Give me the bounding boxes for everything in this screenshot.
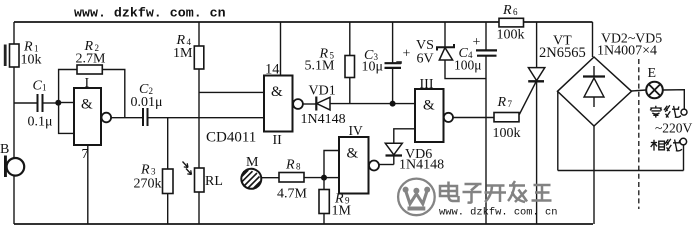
svg-text:100k: 100k (497, 28, 525, 43)
svg-text:100k: 100k (493, 126, 521, 141)
svg-text:7: 7 (508, 99, 513, 109)
svg-text:8: 8 (296, 162, 301, 172)
wire C1 node (14, 102, 38, 104)
svg-text:1M: 1M (173, 46, 193, 61)
svg-text:+: + (403, 47, 411, 62)
svg-text:1N4007×4: 1N4007×4 (597, 44, 657, 59)
svg-text:&: & (271, 84, 283, 100)
svg-text:IV: IV (349, 123, 363, 138)
resistor R1 (10, 40, 42, 68)
capacitor C1 (28, 79, 59, 130)
svg-text:0.01μ: 0.01μ (131, 95, 163, 110)
svg-text:270k: 270k (134, 177, 162, 192)
wire bottom rail (14, 223, 593, 225)
op-amp gate III (CD4011 NAND III) (415, 77, 453, 142)
svg-text:6: 6 (513, 7, 518, 17)
terminal phase (680, 138, 687, 145)
svg-text:1: 1 (42, 83, 47, 93)
thyristor VT (519, 22, 585, 224)
svg-text:I: I (85, 76, 90, 91)
svg-text:VD1: VD1 (309, 84, 336, 99)
microphone B (0, 142, 24, 177)
svg-text:1N4148: 1N4148 (301, 112, 346, 127)
svg-text:RL: RL (205, 174, 223, 189)
svg-text:R: R (497, 95, 507, 110)
resistor R5 (305, 22, 355, 104)
node A junction dot (55, 100, 61, 106)
svg-text:www. dzkfw. com. cn: www. dzkfw. com. cn (439, 207, 557, 219)
wire bridge left to phase (558, 92, 684, 171)
resistor R6 (497, 3, 525, 43)
resistor R4 (173, 22, 204, 118)
terminal neutral (681, 109, 687, 115)
svg-text:7: 7 (82, 147, 89, 162)
wire top rail (14, 21, 593, 23)
wire gate I inputs (58, 103, 74, 134)
svg-text:2.7M: 2.7M (76, 52, 107, 67)
wire bridge bottom to rail (593, 126, 595, 224)
svg-text:&: & (81, 97, 93, 113)
svg-text:R: R (502, 3, 512, 18)
diode VD1 (301, 84, 416, 128)
svg-text:+: + (473, 35, 481, 50)
svg-text:0.1μ: 0.1μ (28, 115, 53, 130)
svg-text:3: 3 (151, 167, 156, 177)
node R8 R9 junction dot (321, 175, 327, 181)
label phase 相线 (651, 140, 665, 151)
wire gate I pin 7 (82, 145, 89, 224)
wire gate III output (453, 117, 494, 119)
resistor R9 (319, 178, 352, 224)
svg-text:C: C (33, 79, 43, 94)
zener diode VS (416, 22, 486, 79)
title url text (74, 6, 226, 21)
resistor R7 (493, 95, 521, 141)
svg-text:1M: 1M (332, 204, 352, 219)
op-amp gate II (CD4011 NAND II) (264, 76, 303, 149)
wire left vertical (13, 22, 15, 224)
resistor R3 (134, 118, 174, 224)
svg-text:6V: 6V (417, 52, 434, 67)
svg-text:5.1M: 5.1M (305, 59, 336, 74)
label CD4011 (206, 130, 256, 146)
capacitor C2 (131, 82, 163, 126)
dashed mains separator (638, 59, 640, 209)
wire gate I output (111, 117, 143, 119)
svg-text:&: & (423, 98, 435, 114)
svg-text:&: & (347, 146, 359, 162)
svg-text:10k: 10k (21, 53, 42, 68)
svg-text:M: M (246, 155, 259, 170)
sensor M (241, 155, 279, 189)
svg-text:~220V: ~220V (655, 121, 693, 136)
resistor R2 (59, 39, 125, 118)
wire C2 to gate II (149, 92, 265, 117)
svg-text:1N4148: 1N4148 (399, 158, 444, 173)
svg-text:R: R (285, 158, 295, 173)
watermark url text (439, 207, 557, 219)
label ~220V (655, 121, 693, 136)
watermark logo (398, 179, 435, 216)
capacitor C3 (362, 22, 411, 107)
diode VD6 (379, 129, 444, 173)
svg-text:100μ: 100μ (454, 58, 482, 73)
scan artifact left edge (4, 45, 402, 67)
label neutral 零线 (650, 106, 662, 118)
svg-text:www. dzkfw. com. cn: www. dzkfw. com. cn (74, 6, 226, 21)
svg-text:B: B (0, 142, 9, 157)
op-amp gate I (CD4011 NAND I) (74, 76, 111, 145)
resistor R8 (277, 158, 324, 202)
capacitor C4 (454, 22, 497, 224)
svg-text:II: II (273, 133, 283, 148)
photoresistor RL (183, 118, 223, 224)
svg-text:R: R (140, 163, 150, 178)
svg-text:2N6565: 2N6565 (539, 45, 586, 61)
bridge rectifier VD2~VD5 (558, 22, 663, 126)
svg-text:E: E (648, 66, 657, 81)
wire gate II pin 14 (265, 22, 281, 78)
lamp E (632, 66, 685, 109)
svg-text:14: 14 (265, 62, 280, 78)
watermark text 电子开发王 (440, 181, 552, 203)
wire gate IV inputs (324, 151, 339, 178)
svg-text:CD4011: CD4011 (206, 130, 256, 146)
svg-text:III: III (420, 77, 434, 92)
op-amp gate IV (CD4011 NAND IV) (339, 123, 379, 194)
svg-text:10μ: 10μ (362, 60, 384, 75)
svg-text:4.7M: 4.7M (277, 187, 308, 202)
